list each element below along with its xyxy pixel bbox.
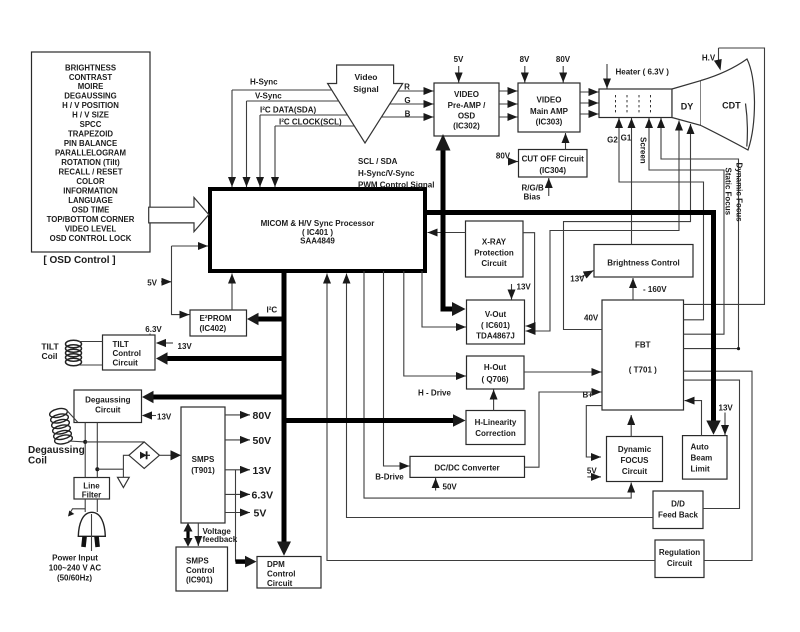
wire pre-amp to main amp RGB	[499, 90, 518, 92]
wire X-RAY to V-Out right	[523, 233, 535, 326]
svg-text:B+: B+	[583, 391, 594, 400]
wire FBT left bottom to dynamic focus	[586, 406, 602, 457]
wire H.V into bell	[718, 48, 720, 60]
box D/D Feed Back	[653, 491, 703, 529]
wire 5V into dynamic focus	[587, 476, 601, 478]
box Brightness Control	[594, 245, 693, 278]
tilt coil symbol	[41, 340, 81, 366]
box DPM Control Circuit	[257, 557, 321, 589]
box U-IC601 V-Out TDA4867J	[467, 300, 525, 344]
wire 5V to pre-amp	[458, 66, 460, 83]
transformer T901 SMPS	[181, 407, 225, 523]
svg-text:Brightness Control: Brightness Control	[607, 259, 679, 268]
svg-text:B: B	[405, 110, 411, 119]
amp U-IC302 VIDEO Pre-AMP / OSD	[434, 83, 499, 136]
wire tilt coil to tilt control	[79, 342, 103, 366]
svg-text:Screen: Screen	[639, 137, 648, 164]
svg-text:40V: 40V	[584, 314, 599, 323]
box DC/DC Converter	[410, 456, 525, 477]
wire R to pre-amp	[398, 90, 434, 92]
box OSD menu list	[32, 52, 151, 252]
rectifier diamond with diode	[129, 442, 160, 469]
svg-text:6.3V: 6.3V	[145, 325, 162, 334]
thick wire bus to E2PROM I2C	[257, 317, 284, 322]
wire SMPS 5V output	[225, 512, 250, 514]
svg-text:5V: 5V	[147, 279, 157, 288]
wire V-Sync	[247, 101, 339, 187]
wire 13V into brightness control	[580, 271, 594, 278]
svg-text:I²C CLOCK(SCL): I²C CLOCK(SCL)	[279, 118, 342, 127]
wire 80V into cutoff	[511, 161, 518, 163]
wire main amp to CRT cathodes	[580, 91, 599, 93]
svg-text:80V: 80V	[496, 152, 511, 161]
svg-text:B-Drive: B-Drive	[375, 473, 404, 482]
wire B to pre-amp	[382, 116, 434, 118]
wire 6.3V stub at tilt control	[149, 334, 151, 336]
svg-text:I²C: I²C	[267, 306, 278, 315]
svg-text:Bias: Bias	[524, 193, 541, 202]
AC plug symbol	[78, 512, 105, 551]
svg-text:[ OSD Control ]: [ OSD Control ]	[43, 255, 115, 266]
wire H.V bus right side to FBT	[684, 48, 765, 304]
svg-text:- 160V: - 160V	[643, 285, 667, 294]
wire G2 net from FBT via right riser	[619, 123, 704, 320]
wire H-Linearity to H-Out	[493, 390, 495, 411]
wire focus net into yoke flare left	[526, 126, 680, 331]
wire 5V rail to MICOM and E2PROM	[172, 245, 209, 247]
wire G to pre-amp	[390, 103, 434, 105]
svg-text:I²C DATA(SDA): I²C DATA(SDA)	[260, 106, 316, 115]
wire feedback line SMPS to SMPS control	[197, 523, 199, 546]
wire G1 net from brightness control	[631, 123, 633, 245]
transistor Q706 H-Out	[467, 356, 525, 389]
wire H-Sync	[232, 90, 332, 187]
thick wire MICOM right to auto beam limit	[425, 213, 714, 422]
svg-text:80V: 80V	[253, 410, 272, 422]
wire SMPS 6.3V output	[225, 493, 250, 495]
svg-text:5V: 5V	[587, 467, 597, 476]
svg-text:13V: 13V	[570, 275, 585, 284]
wire H-Out to FBT	[524, 371, 602, 373]
earth symbol at plug	[70, 509, 85, 513]
box Auto Beam Limit	[683, 436, 728, 480]
svg-text:8V: 8V	[520, 55, 530, 64]
thick wire bus to H-Linearity	[284, 418, 455, 423]
svg-text:H - Drive: H - Drive	[418, 389, 451, 398]
svg-text:5V: 5V	[254, 508, 267, 520]
svg-text:Coil: Coil	[28, 456, 47, 467]
wire MICOM B-Drive to DC/DC	[384, 271, 410, 466]
svg-text:13V: 13V	[517, 283, 532, 292]
svg-text:5V: 5V	[454, 55, 464, 64]
box Regulation Circuit	[655, 540, 704, 578]
svg-text:6.3V: 6.3V	[252, 490, 274, 502]
wire MICOM to V-Out left	[422, 271, 466, 327]
wire dynamic focus to FBT bottom	[630, 415, 632, 437]
svg-text:H.V: H.V	[702, 54, 716, 63]
wire mains pair through line filter	[85, 423, 97, 513]
junction dot dynamic focus riser	[737, 347, 740, 350]
svg-text:SCL / SDA: SCL / SDA	[358, 157, 398, 166]
box Degaussing Circuit	[74, 390, 142, 423]
svg-text:R: R	[404, 83, 410, 92]
svg-text:DC/DC Converter: DC/DC Converter	[434, 464, 499, 473]
wire D/D feedback to MICOM	[347, 274, 654, 518]
svg-text:G2: G2	[607, 136, 618, 145]
wire B+ DC/DC to FBT	[525, 392, 602, 467]
wire regulation to MICOM	[327, 274, 655, 561]
svg-text:50V: 50V	[443, 483, 458, 492]
wire 50V into DC/DC bottom	[435, 478, 437, 491]
eeprom U-IC402 E2PROM	[190, 310, 247, 336]
wire MICOM to dynamic focus bottom	[364, 271, 631, 498]
wire grid4 net from FBT	[661, 123, 739, 349]
svg-text:TILT: TILT	[41, 342, 59, 352]
wire mains to rectifier diamond	[85, 442, 144, 477]
svg-text:DY: DY	[681, 102, 694, 112]
box X-RAY Protection Circuit	[466, 221, 524, 277]
wire I2C CLOCK SCL	[275, 126, 355, 187]
micom U-IC401 MICOM & H/V Sync Processor	[210, 189, 425, 271]
wire 13V into degaussing circuit	[147, 415, 156, 417]
wire auto beam limit to FBT	[685, 401, 702, 436]
wire R/G/B bias into cutoff	[548, 178, 550, 196]
wire MICOM H-Drive to H-Out	[404, 271, 466, 376]
video signal input arrow symbol	[328, 65, 403, 143]
svg-text:H-Sync/V-Sync: H-Sync/V-Sync	[358, 169, 415, 178]
svg-text:G: G	[404, 96, 410, 105]
svg-text:H-Sync: H-Sync	[250, 78, 278, 87]
svg-text:Dynamic Focus: Dynamic Focus	[735, 163, 744, 223]
hollow arrow OSD to MICOM	[149, 198, 209, 232]
CRT neck	[599, 89, 672, 118]
box U-IC304 CUT OFF Circuit	[519, 150, 588, 178]
wire 40V net flare to FBT left	[564, 129, 691, 330]
box U-IC901 SMPS Control	[176, 547, 228, 591]
box Dynamic FOCUS Circuit	[607, 437, 663, 482]
svg-text:Static Focus: Static Focus	[724, 168, 733, 216]
wire D/D feedback right from FBT	[684, 380, 740, 508]
box Line Filter	[74, 478, 110, 500]
thick wire bus to TILT control	[166, 356, 284, 361]
wire voltage feedback double arrow	[186, 529, 189, 540]
svg-text:Heater ( 6.3V ): Heater ( 6.3V )	[616, 68, 670, 77]
wire Screen net from FBT	[649, 123, 724, 334]
wire 8V to main amp	[524, 66, 526, 83]
CRT deflection yoke DY	[672, 81, 701, 126]
wire E2PROM to MICOM	[231, 274, 233, 311]
svg-text:LineFilter: LineFilter	[82, 482, 102, 500]
wire heater 6.3V	[606, 64, 608, 89]
wire 80V to main amp	[562, 66, 564, 83]
svg-text:13V: 13V	[719, 404, 734, 413]
svg-text:13V: 13V	[178, 342, 193, 351]
svg-text:V-Sync: V-Sync	[255, 92, 282, 101]
wire SMPS 50V output	[225, 439, 250, 441]
wire -160V FBT to brightness control	[632, 278, 634, 300]
wire 13V into auto beam limit	[724, 413, 726, 436]
svg-text:CDT: CDT	[722, 101, 741, 111]
svg-text:PWM Control Signal: PWM Control Signal	[358, 181, 434, 190]
thick wire bus to degaussing circuit	[152, 395, 284, 400]
wire 13V into tilt control	[161, 342, 174, 344]
wire SMPS 13V output	[225, 469, 250, 471]
svg-text:G1: G1	[621, 134, 632, 143]
wire SMPS 80V output	[225, 414, 250, 416]
svg-text:Degaussing: Degaussing	[28, 445, 85, 456]
wire I2C DATA SDA	[260, 115, 348, 187]
thick wire MICOM bottom bus down to DPM	[282, 271, 287, 542]
box TILT Control Circuit	[103, 335, 156, 370]
degaussing coil symbol	[28, 407, 85, 466]
svg-text:R/G/B: R/G/B	[522, 184, 544, 193]
thick arrow rail into DPM left	[236, 559, 248, 564]
wire degaussing coil connections	[66, 410, 85, 442]
wire X-RAY to MICOM	[428, 232, 466, 234]
svg-text:50V: 50V	[253, 435, 272, 447]
wire 13V into V-Out top	[511, 284, 513, 300]
thick wire video bus MICOM to pre-amp and V-Out	[443, 148, 452, 309]
svg-text:Coil: Coil	[41, 351, 57, 361]
svg-text:DynamicFOCUSCircuit: DynamicFOCUSCircuit	[618, 445, 652, 476]
junction dots mains	[83, 440, 87, 444]
box H-Linearity Correction	[466, 411, 525, 445]
wire cutoff to main amp	[565, 133, 567, 150]
svg-text:feedback: feedback	[203, 535, 238, 544]
svg-text:13V: 13V	[253, 465, 272, 477]
wire regulation right from FBT	[684, 371, 753, 560]
transformer T701 FBT	[602, 300, 684, 410]
ground triangle under diamond	[118, 477, 130, 487]
wire 5V rail down to DPM	[235, 470, 237, 562]
CRT bell CDT	[701, 59, 755, 150]
svg-text:80V: 80V	[556, 55, 571, 64]
svg-text:13V: 13V	[157, 413, 172, 422]
amp U-IC303 VIDEO Main AMP	[518, 83, 580, 132]
wire rectifier to SMPS	[159, 454, 171, 456]
